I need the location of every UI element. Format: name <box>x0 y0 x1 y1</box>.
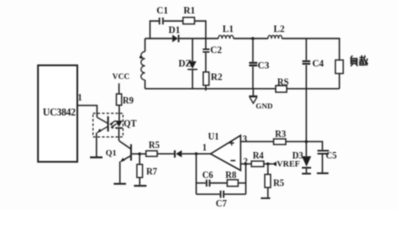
svg-text:R1: R1 <box>184 7 196 17</box>
svg-text:C3: C3 <box>258 61 270 71</box>
svg-text:R7: R7 <box>146 166 157 176</box>
svg-text:C2: C2 <box>210 46 222 56</box>
svg-text:R3: R3 <box>275 129 286 139</box>
svg-text:C4: C4 <box>312 60 324 70</box>
svg-text:D1: D1 <box>169 26 181 36</box>
svg-text:UC3842: UC3842 <box>43 108 76 119</box>
svg-text:R9: R9 <box>123 95 134 105</box>
svg-text:U1: U1 <box>208 131 219 141</box>
svg-text:L2: L2 <box>274 25 285 35</box>
svg-text:Q1: Q1 <box>106 148 117 158</box>
svg-text:R2: R2 <box>211 73 223 83</box>
svg-text:RS: RS <box>277 77 289 87</box>
svg-text:DZ: DZ <box>179 60 192 70</box>
svg-text:C6: C6 <box>202 170 213 180</box>
svg-text:GND: GND <box>256 101 273 110</box>
svg-text:R5: R5 <box>273 178 284 188</box>
svg-text:L1: L1 <box>223 25 234 35</box>
svg-text:C7: C7 <box>216 198 227 208</box>
svg-text:1: 1 <box>202 142 207 152</box>
svg-text:C1: C1 <box>157 7 169 17</box>
svg-text:1: 1 <box>78 92 83 102</box>
svg-text:R4: R4 <box>253 151 264 161</box>
svg-text:VCC: VCC <box>112 72 130 81</box>
svg-text:C5: C5 <box>326 150 337 160</box>
svg-text:R5: R5 <box>149 140 160 150</box>
svg-text:R8: R8 <box>225 170 236 180</box>
svg-text:VREF: VREF <box>277 159 300 169</box>
svg-text:QT: QT <box>124 118 137 128</box>
